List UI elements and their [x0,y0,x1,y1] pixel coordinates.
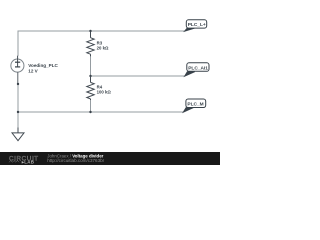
svg-text:PLC_M: PLC_M [187,101,203,107]
label Voeding_PLC value [28,63,58,73]
svg-text:PLC_L+: PLC_L+ [188,22,206,28]
wire top rail + left rail (L+ net) [18,31,185,56]
voltage source V1 Voeding_PLC [11,56,24,84]
wire R4 bottom to bottom rail [90,100,92,113]
footer bar [0,152,220,165]
wire ground stem [17,112,19,128]
svg-text:100 kΩ: 100 kΩ [97,89,112,94]
junction dot middle rail at R3/R4 [89,75,91,77]
junction dot top rail at R3 [89,30,91,32]
footer logo waveform [9,161,19,163]
svg-text:PLC_AI1: PLC_AI1 [188,65,208,71]
wire left rail lower + bottom rail (M net) [18,84,183,112]
node flag PLC_AI1 [184,63,209,77]
junction dot bottom rail at R4 [89,111,91,113]
label R3 value [97,41,109,51]
resistor R3 [87,31,94,56]
svg-text:20 kΩ: 20 kΩ [97,46,109,51]
svg-text:▸LAB: ▸LAB [21,160,34,165]
svg-text:http://circuitlab.com/c3763br: http://circuitlab.com/c3763br [47,158,104,163]
ground [12,128,24,141]
wire middle rail (AI1 net) [91,75,185,77]
svg-text:Voeding_PLC: Voeding_PLC [28,63,58,68]
node flag PLC_L+ [184,20,206,32]
svg-text:12 V: 12 V [28,69,38,74]
junction dot below source [17,83,19,85]
junction dot bottom rail at ground [17,111,19,113]
node flag PLC_M [183,99,206,112]
wire R3 bottom to middle rail [90,56,92,76]
label R4 value [97,84,112,94]
resistor R4 [87,76,94,100]
